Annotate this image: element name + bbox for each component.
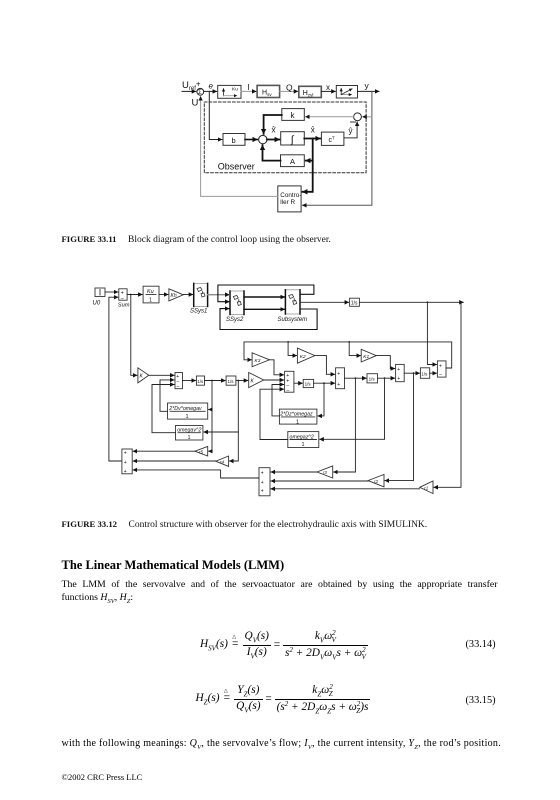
- block A: [281, 155, 305, 167]
- svg-text:r5: r5: [199, 449, 203, 454]
- observer dashed box: [204, 102, 366, 173]
- svg-text:+: +: [337, 371, 340, 377]
- svg-text:1/s: 1/s: [305, 382, 312, 387]
- svg-text:–: –: [439, 372, 442, 378]
- wire S3 to integrator: [267, 139, 280, 141]
- gain K3 triangle: [252, 353, 269, 367]
- wire integrator z2 to sum z3: [378, 377, 395, 379]
- block Controller R: [278, 186, 302, 212]
- wire branch to 2Dz: [318, 383, 324, 416]
- svg-text:r1: r1: [424, 486, 428, 491]
- wire branch u down to gain K valve: [130, 294, 137, 376]
- label U: [192, 98, 199, 109]
- block SSys2: [230, 291, 244, 315]
- wire omegav2 out to sum valve: [152, 385, 176, 433]
- wire branch to omegaz2: [320, 378, 385, 439]
- wire K2 out to sum z2: [315, 356, 335, 375]
- wire integrator to cT heavy with xhat branch: [303, 139, 321, 192]
- wire integrator v2 to K cylinder: [236, 380, 248, 382]
- svg-text:+: +: [337, 382, 340, 388]
- block transfer fcn 2Dz omegaz: [279, 409, 317, 425]
- gain K2 triangle: [297, 348, 314, 363]
- wire K valve to sum valve: [149, 374, 174, 376]
- svg-text:K3: K3: [255, 358, 261, 364]
- svg-text:1: 1: [296, 419, 299, 425]
- block integrator z1: [303, 379, 313, 387]
- wire SSys2 to Subsystem line 1: [244, 296, 285, 298]
- wire omegaz2 out to sum cylinder: [260, 389, 288, 439]
- wire K3 out to sum cylinder: [270, 360, 284, 375]
- svg-text:r4: r4: [220, 459, 224, 464]
- block sum valve: [175, 373, 183, 390]
- block integrator v2: [226, 376, 236, 385]
- wire branch down to K2: [287, 341, 297, 356]
- label SSys2: [226, 317, 244, 323]
- equation 33.14: [200, 629, 500, 662]
- svg-text:U0: U0: [93, 301, 101, 307]
- svg-text:Kh: Kh: [171, 293, 177, 299]
- wire e line: [204, 90, 217, 92]
- block b: [223, 134, 245, 146]
- svg-text:K1: K1: [363, 354, 369, 360]
- svg-text:r3: r3: [323, 470, 327, 475]
- gain r1 triangle: [420, 481, 433, 494]
- block integrator v1: [196, 376, 204, 385]
- svg-text:1/s: 1/s: [421, 372, 428, 377]
- closing body line: [62, 738, 512, 751]
- wire sum cylinder to integrator z1: [294, 382, 302, 384]
- svg-text:–: –: [286, 388, 289, 394]
- wire sum valve to integrator v1: [183, 380, 196, 382]
- block cT: [321, 132, 344, 145]
- section heading: [62, 558, 285, 573]
- wire r5 out to sum bottom left: [133, 450, 195, 452]
- label e: [209, 82, 214, 91]
- svg-text:omegav^2: omegav^2: [177, 428, 201, 434]
- label Q: [286, 83, 293, 93]
- block Ku nonlinearity: [218, 85, 241, 98]
- block sensor slope: [336, 86, 357, 99]
- svg-text:+: +: [397, 376, 400, 382]
- block Sum1: [119, 289, 127, 302]
- svg-text:2*Dv*omegav: 2*Dv*omegav: [168, 406, 202, 412]
- svg-text:K2: K2: [300, 354, 306, 360]
- svg-text:+: +: [124, 451, 127, 457]
- block transfer fcn omegaz2: [288, 432, 319, 449]
- wire SSys2 to Subsystem line 2: [244, 308, 285, 310]
- wire y into summer S2: [363, 116, 372, 118]
- wire y down into error sum plus: [427, 302, 436, 364]
- wire r1 out to sum bottom right: [271, 488, 420, 490]
- label y: [365, 81, 370, 91]
- block sum z3: [396, 364, 405, 382]
- block sum bottom left: [122, 449, 132, 475]
- wire state feedback into Sum1 from bottom left: [109, 297, 122, 461]
- svg-text:1/s: 1/s: [197, 379, 204, 384]
- wire branch valve out down to omegav2 and r4: [204, 381, 239, 462]
- label xhat: [311, 126, 315, 135]
- svg-text:1/s: 1/s: [351, 300, 358, 306]
- wire A to S3 heavy: [263, 145, 281, 160]
- block sum z2: [336, 368, 345, 389]
- block integrator z3: [420, 368, 429, 379]
- wire A input from xhat line: [306, 160, 313, 162]
- wire 2Dv out to sum valve: [160, 380, 174, 411]
- svg-text:+: +: [439, 364, 442, 370]
- block integrator top 1/s: [350, 298, 360, 306]
- svg-text:omegaz^2: omegaz^2: [290, 434, 314, 440]
- wire top integrator output line y: [359, 301, 463, 303]
- svg-text:1: 1: [188, 435, 191, 441]
- wire S2 to k: [306, 116, 354, 118]
- svg-text:Ku: Ku: [147, 289, 154, 295]
- wire I line: [241, 90, 256, 92]
- svg-text:2*Dz*omegaz: 2*Dz*omegaz: [279, 412, 313, 418]
- block k: [282, 109, 305, 121]
- block sum bottom right: [259, 468, 270, 496]
- footer: [62, 772, 143, 782]
- gain r5 triangle: [195, 446, 208, 456]
- svg-text:Subsystem: Subsystem: [278, 317, 308, 323]
- label Sum: [118, 302, 130, 308]
- label x: [326, 83, 330, 92]
- label I: [248, 83, 250, 92]
- label Observer: [218, 162, 255, 172]
- svg-text:+: +: [261, 470, 264, 476]
- block Hsv: [257, 85, 280, 97]
- wire r2 out to sum bottom right: [271, 480, 368, 482]
- wire Sum1 to Ku: [127, 294, 142, 296]
- svg-text:1: 1: [186, 414, 189, 420]
- wire branch valve velocity down to 2Dv and r5: [209, 381, 212, 452]
- wire Subsystem to top integrator: [300, 301, 349, 303]
- wire cT to S2 yhat: [344, 122, 357, 138]
- svg-text:SSys1: SSys1: [190, 309, 207, 315]
- block U0 input: [95, 288, 105, 297]
- wire y down right side to gain r1: [434, 302, 461, 487]
- wire e branch down to b: [209, 91, 222, 139]
- label yhat: [349, 122, 356, 136]
- block transfer fcn omegav2: [176, 426, 203, 442]
- wire sum bottom right out to sum bottom left: [133, 470, 259, 478]
- label U0: [93, 301, 101, 307]
- block sum cylinder: [285, 371, 294, 393]
- svg-text:1: 1: [302, 442, 305, 448]
- wire x line: [321, 90, 335, 92]
- gain K cylinder triangle: [249, 373, 264, 388]
- gain K valve triangle: [138, 368, 149, 383]
- caption figure 33.12: [62, 519, 532, 530]
- wire U0 to Sum1: [105, 291, 118, 293]
- wire sum z3 to integrator z3: [404, 372, 419, 374]
- block Hzyl: [299, 86, 322, 97]
- block integrator z2: [367, 374, 378, 383]
- wire SSys1 to SSys2: [208, 294, 230, 296]
- wire k to summer S3 heavy: [264, 115, 282, 134]
- wire y feedback down to controller: [303, 91, 372, 205]
- wire top feedback loop Subsystem to SSys2: [218, 285, 314, 302]
- svg-text:Sum: Sum: [118, 302, 130, 308]
- svg-text:r2: r2: [374, 479, 378, 484]
- wire Ku to Kh: [159, 294, 168, 296]
- wire error out up and left to K gains: [244, 342, 452, 368]
- wire branch down to r2: [385, 373, 414, 480]
- wire branch down to r3: [334, 378, 356, 472]
- wire 2Dz out to sum cylinder: [272, 385, 284, 416]
- label U_ref: [182, 80, 201, 93]
- wire sum z2 to integrator z2: [345, 377, 367, 379]
- wire controller U output to S1: [201, 97, 278, 197]
- label xhatdot: [271, 126, 276, 135]
- svg-text:1: 1: [149, 298, 152, 304]
- wire b to S3: [245, 139, 257, 141]
- body paragraph: [62, 579, 498, 590]
- gain r3 triangle: [317, 466, 333, 478]
- summer S3: [259, 135, 267, 143]
- wire K cylinder to sum cylinder: [264, 379, 284, 381]
- wire K1 out to sum z3: [376, 356, 394, 369]
- label Subsystem: [278, 317, 308, 323]
- gain Kh triangle: [169, 289, 183, 301]
- wire Q line: [280, 90, 298, 92]
- wire integrator z1 to sum z2: [314, 382, 335, 384]
- svg-text:+: +: [397, 367, 400, 373]
- gain r2 triangle: [368, 474, 384, 487]
- gain r4 triangle: [216, 456, 229, 466]
- wire y line: [358, 90, 380, 92]
- svg-text:1/s: 1/s: [369, 377, 376, 382]
- svg-text:+: +: [261, 480, 264, 486]
- block integrator: [281, 132, 305, 147]
- block sum error: [437, 361, 446, 378]
- wire r4 out to sum bottom left: [133, 460, 216, 462]
- block Subsystem: [285, 290, 300, 314]
- svg-text:1/s: 1/s: [228, 379, 235, 384]
- caption figure 33.11: [62, 234, 522, 245]
- block transfer fcn Ku over 1: [143, 286, 159, 303]
- svg-text:+: +: [261, 489, 264, 495]
- wire bottom feedback loop Subsystem to SSys2: [220, 309, 317, 330]
- block SSys1: [194, 283, 208, 306]
- gain K1 triangle: [361, 349, 376, 362]
- summer S2 top right: [354, 113, 362, 121]
- label SSys1: [190, 309, 207, 315]
- wire branch down to K1: [348, 341, 360, 356]
- svg-text:+: +: [124, 460, 127, 466]
- svg-text:–: –: [177, 384, 180, 390]
- wire Uref input arrow: [182, 90, 196, 92]
- svg-text:+: +: [124, 469, 127, 475]
- summer S1: [197, 88, 204, 96]
- wire r3 out to sum bottom right: [271, 471, 317, 473]
- equation 33.15: [196, 683, 506, 716]
- block transfer fcn 2Dv omegav: [168, 403, 208, 420]
- wire Kh to SSys1: [183, 294, 193, 296]
- wire integrator z3 to sum error: [430, 372, 437, 374]
- wire integrator v1 to v2: [205, 380, 226, 382]
- svg-text:SSys2: SSys2: [226, 317, 244, 323]
